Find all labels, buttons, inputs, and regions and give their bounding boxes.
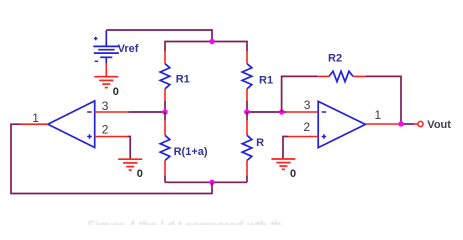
pin 1 of U2 (output)	[365, 123, 401, 125]
pin 3 of U2	[286, 111, 318, 113]
battery Vref	[93, 31, 119, 64]
svg-text:0: 0	[290, 168, 296, 180]
svg-text:R(1+a): R(1+a)	[174, 146, 208, 158]
node B (right column junction)	[244, 109, 249, 114]
wire R2 right down to output node	[366, 76, 401, 124]
wire node A down to R(1+a)	[164, 112, 166, 121]
pin stub top of R	[246, 121, 248, 136]
pin stub to Vout terminal	[414, 123, 418, 125]
svg-text:R: R	[256, 137, 264, 149]
wire R(1+a) bottom	[164, 175, 166, 182]
pin 1 of U1 (output)	[21, 123, 48, 125]
op-amp U2 minus sign	[322, 111, 327, 113]
node top middle	[209, 39, 214, 44]
wire U2 output to Vout node	[401, 123, 414, 125]
resistor R1 (left)	[160, 64, 170, 89]
pin stub bottom of R	[246, 161, 248, 176]
wire battery top to middle node	[106, 30, 212, 42]
wire feedback U1 output to bottom node D	[11, 124, 212, 193]
svg-text:2: 2	[102, 123, 109, 137]
node E (output junction)	[398, 121, 403, 126]
svg-text:R1: R1	[176, 74, 190, 86]
resistor R1 (right)	[242, 64, 252, 89]
pin 3 of U1	[95, 111, 129, 113]
svg-text:3: 3	[102, 99, 109, 113]
wire node C up and over to R2	[282, 76, 317, 112]
pin 2 of U2	[288, 136, 318, 138]
svg-text:2: 2	[304, 120, 311, 134]
resistor R	[242, 135, 252, 160]
svg-text:Vout: Vout	[427, 119, 451, 131]
svg-text:Vref: Vref	[118, 43, 139, 55]
pin stub left of R2	[317, 75, 329, 77]
svg-text:0: 0	[137, 168, 143, 180]
wire right R1 bottom to node	[246, 101, 248, 112]
pin 2 of U1	[95, 136, 128, 138]
svg-text:R1: R1	[259, 75, 273, 87]
op-amp U2 (right, output on right)	[318, 101, 365, 147]
pin stub top of left R1	[164, 52, 166, 64]
wire U2 pin 2 to ground	[283, 137, 288, 159]
terminal Vout (open circle)	[418, 121, 423, 126]
node A (left column junction)	[162, 109, 167, 114]
wire left R1 bottom to node	[164, 101, 166, 112]
node C (R2 branch junction)	[279, 109, 284, 114]
pin stub bottom of right R1	[246, 89, 248, 101]
wire R bottom	[246, 175, 248, 182]
node D (bottom middle junction)	[209, 180, 214, 185]
wire connecting R1 column tops	[165, 42, 247, 52]
pin stub bottom of left R1	[164, 89, 166, 101]
ground 0 under Vref	[94, 77, 118, 88]
op-amp U2 plus sign	[322, 136, 327, 138]
wire left node to left op-amp pin 3	[129, 111, 166, 113]
svg-text:0: 0	[113, 86, 119, 98]
svg-text:1: 1	[32, 111, 39, 125]
pin stub right of R2	[353, 75, 366, 77]
ground 0 under U1	[118, 159, 142, 170]
op-amp U1 plus sign	[87, 136, 92, 138]
pin battery to ground	[105, 64, 107, 77]
wire U1 pin 2 to ground	[128, 137, 131, 159]
svg-text:3: 3	[304, 98, 311, 112]
wire node B down to R	[246, 112, 248, 121]
svg-text:Figure 4 the l d t compar: Figure 4 the l d t compared wth th .	[88, 218, 289, 225]
op-amp U1 (left, output on left)	[48, 101, 95, 148]
wire right node to R2 branch node	[247, 111, 286, 113]
pin stub top of R(1+a)	[164, 121, 166, 136]
resistor R(1+a)	[160, 135, 170, 160]
pin stub bottom of R(1+a)	[164, 161, 166, 176]
ground 0 under U2	[271, 159, 295, 169]
op-amp U1 minus sign	[87, 111, 92, 113]
pin stub top of right R1	[246, 52, 248, 64]
svg-text:1: 1	[375, 108, 382, 122]
resistor R2	[329, 71, 353, 81]
svg-text:R2: R2	[328, 53, 342, 65]
wire bottom connecting R(1+a) and R	[165, 181, 247, 183]
